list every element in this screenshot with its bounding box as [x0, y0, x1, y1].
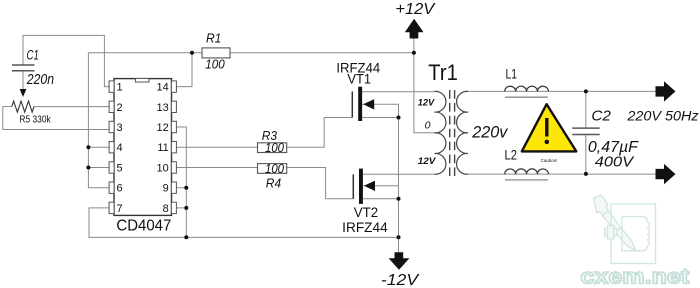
IC pin boxes left — [109, 81, 176, 214]
junction pin 14 / R1 on +12V rail — [190, 51, 194, 55]
wire pin 10 to R4 to VT2 gate — [176, 168, 353, 199]
wire VT2 drain to transformer bottom — [363, 173, 435, 175]
svg-text:12V: 12V — [418, 98, 435, 109]
wire secondary top to output — [468, 90, 656, 92]
svg-text:13: 13 — [157, 102, 169, 114]
+12V supply arrow — [405, 19, 424, 39]
resistor R5 330k (zigzag) — [12, 101, 34, 112]
wire VT2 body and source leads — [363, 186, 399, 199]
svg-text:6: 6 — [117, 183, 123, 195]
svg-text:10: 10 — [157, 163, 169, 175]
output arrow top — [656, 81, 676, 101]
warning triangle caution sign — [522, 104, 577, 151]
wire +12V feed to center tap — [414, 38, 435, 133]
transistor VT2 IRFZ44 — [342, 169, 388, 235]
resistor R3 — [258, 143, 287, 153]
junction pin 9 on ground column — [184, 186, 188, 190]
capacitor C2 — [572, 128, 599, 134]
resistor R1 — [202, 48, 230, 58]
svg-text:Caution!: Caution! — [541, 158, 558, 163]
wire VT1 drain to transformer top — [362, 91, 435, 93]
wire C1 top plate to IC pin 1 — [23, 35, 109, 86]
svg-text:R4: R4 — [266, 176, 281, 190]
wire pin 12,9,8 ground column — [176, 127, 186, 237]
svg-text:5: 5 — [117, 163, 123, 175]
svg-text:0: 0 — [425, 120, 431, 132]
watermark cxem.net logo — [580, 195, 689, 288]
svg-text:2: 2 — [117, 102, 123, 114]
junction pin 8 on ground column — [184, 206, 188, 210]
svg-text:8: 8 — [163, 203, 169, 215]
IC notch — [136, 79, 150, 82]
svg-text:9: 9 — [163, 183, 169, 195]
wire C1 bottom to R5 wiper arrow — [22, 71, 24, 90]
IC pin numbers — [117, 82, 169, 215]
svg-text:R5 330k: R5 330k — [19, 114, 51, 125]
wire main +12V horizontal rail — [88, 52, 414, 54]
svg-text:100: 100 — [265, 141, 284, 155]
svg-text:cxem.net: cxem.net — [580, 265, 689, 288]
IC U1 CD4047 body — [114, 79, 172, 216]
svg-text:C2: C2 — [591, 108, 611, 124]
transformer Tr1 primary winding — [435, 91, 446, 174]
svg-text:Tr1: Tr1 — [428, 60, 458, 85]
transformer Tr1 secondary winding — [457, 91, 468, 174]
svg-text:L2: L2 — [505, 147, 518, 163]
svg-text:100: 100 — [205, 57, 224, 71]
svg-text:7: 7 — [117, 203, 123, 215]
wire pin 14 drop from +12V rail — [176, 53, 192, 87]
svg-text:400V: 400V — [595, 153, 635, 170]
junction C2 bottom node — [584, 172, 588, 176]
output arrow bottom — [656, 164, 676, 184]
svg-text:3: 3 — [117, 122, 123, 134]
junction VT2 source tie — [397, 197, 401, 201]
svg-text:12: 12 — [157, 122, 169, 134]
svg-text:VT1: VT1 — [347, 72, 371, 87]
svg-text:220v: 220v — [471, 124, 509, 142]
wire R5 right lead to pin 2 — [34, 106, 109, 108]
svg-text:VT2: VT2 — [354, 205, 378, 220]
wiper arrow onto R5 — [20, 89, 27, 97]
wire VT1 body/source ground column — [362, 104, 399, 252]
svg-text:+12V: +12V — [395, 1, 435, 18]
resistor R4 — [258, 164, 287, 174]
junction pin 5 on left bus — [86, 166, 90, 170]
svg-text:12V: 12V — [418, 156, 436, 167]
capacitor C1 — [12, 65, 35, 71]
junction C2 top node — [584, 89, 588, 93]
junction bottom rail / -12V — [397, 235, 401, 239]
junction +12V rail / center-tap feed — [412, 51, 416, 55]
wire R5 left lead loop to pin 3 — [3, 107, 109, 130]
svg-text:100: 100 — [265, 162, 284, 176]
inductor L1 — [505, 86, 549, 91]
IC pin boxes right — [171, 81, 176, 92]
junction VT1 source tie — [397, 116, 401, 120]
inductor L2 — [505, 169, 549, 174]
svg-text:1: 1 — [117, 82, 123, 94]
-12V supply arrow — [389, 252, 410, 269]
svg-text:CD4047: CD4047 — [116, 217, 171, 234]
transistor VT1 IRFZ44 — [336, 61, 380, 121]
wire secondary bottom to output — [468, 173, 656, 175]
junction ground column / bottom rail — [184, 235, 188, 239]
wire pin 7 to ground rail — [89, 208, 399, 238]
transformer core — [450, 90, 455, 176]
svg-text:220n: 220n — [26, 72, 54, 88]
svg-text:R1: R1 — [206, 32, 221, 46]
wire pin 11 to R3 to VT1 gate — [176, 118, 352, 148]
svg-text:220V 50Hz: 220V 50Hz — [626, 109, 699, 124]
svg-text:IRFZ44: IRFZ44 — [342, 220, 388, 235]
svg-text:4: 4 — [117, 142, 123, 154]
svg-text:-12V: -12V — [381, 272, 420, 288]
svg-text:14: 14 — [157, 82, 169, 94]
junction pin 4 on left bus — [86, 145, 90, 149]
wire C2 branch — [585, 91, 587, 174]
svg-text:L1: L1 — [506, 65, 518, 81]
svg-text:11: 11 — [157, 142, 168, 154]
wire +12V bus left (pins 4,5,6 tie) — [88, 53, 109, 188]
svg-text:C1: C1 — [27, 47, 39, 62]
